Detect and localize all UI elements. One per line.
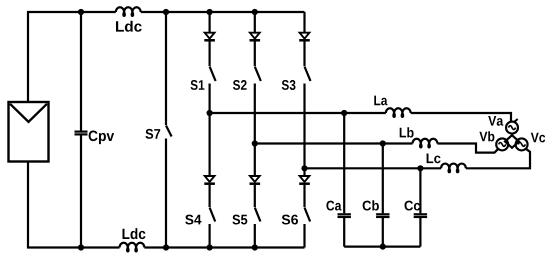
label Ldc (bottom): [123, 228, 146, 239]
switch S2: [255, 67, 261, 82]
wire phase A: [210, 112, 386, 114]
diode D3: [299, 33, 310, 41]
label Lb: [400, 127, 414, 137]
PV module PV1: [9, 102, 49, 162]
label S5: [232, 215, 247, 225]
label Cb: [363, 200, 379, 210]
label Vb: [479, 131, 494, 141]
inductor Ldc (top): [116, 7, 141, 16]
label S4: [185, 215, 201, 225]
node top rail Cpv: [78, 9, 84, 15]
capacitor Cc: [414, 168, 427, 246]
node phase B Cb: [380, 140, 386, 146]
switch S1: [210, 67, 216, 82]
wire: [254, 224, 256, 248]
node top rail S7: [163, 9, 169, 15]
switch S4: [210, 208, 216, 222]
node bottom rail leg1: [207, 244, 213, 250]
wire: [209, 185, 211, 207]
label Va: [488, 116, 503, 126]
diode D1: [204, 33, 215, 41]
diode D2: [250, 33, 261, 41]
label S2: [233, 80, 247, 90]
diode D6: [299, 176, 310, 184]
switch S7: [166, 12, 172, 248]
wire: [303, 41, 305, 66]
wire: [254, 41, 256, 66]
label S7: [146, 129, 161, 139]
source Vc: [516, 138, 528, 150]
wire: [303, 224, 305, 248]
wire star point: [505, 134, 519, 148]
wire: [209, 224, 211, 248]
leg 2 wire top: [254, 12, 256, 33]
node bottom rail Cpv: [78, 244, 84, 250]
label Cpv: [89, 131, 115, 145]
diode D5: [250, 176, 261, 184]
node bottom rail S7: [163, 244, 169, 250]
wire: [209, 41, 211, 66]
wire: [254, 185, 256, 207]
capacitor Ca: [338, 113, 351, 247]
label Ca: [326, 201, 341, 211]
capacitor Cpv: [75, 12, 88, 248]
label Cc: [405, 201, 421, 211]
label S1: [191, 80, 205, 90]
wire bottom rail: [28, 162, 120, 248]
wire phase B: [255, 142, 413, 144]
node phase A leg1: [207, 110, 213, 116]
label S6: [282, 215, 298, 225]
leg 3 wire top: [303, 12, 305, 33]
wire top rail: [28, 12, 116, 102]
node top rail leg2: [252, 9, 258, 15]
node top rail leg1: [207, 9, 213, 15]
wire phase B to Vb: [437, 144, 498, 153]
inductor Ldc (bottom): [120, 243, 145, 252]
node bottom rail leg2: [252, 244, 258, 250]
wire phase C to Vc: [466, 149, 530, 169]
wire: [254, 84, 256, 177]
inductor La: [386, 108, 411, 117]
node phase A Ca: [341, 110, 347, 116]
label Ldc (top): [116, 21, 142, 32]
switch S3: [305, 67, 311, 82]
diode D4: [204, 176, 215, 184]
wire phase A to Va: [411, 113, 511, 123]
leg 1 wire top: [209, 12, 211, 33]
label Vc: [531, 133, 545, 143]
wire: [209, 84, 211, 177]
capacitor Cb: [376, 144, 389, 247]
inductor Lc: [441, 164, 466, 173]
source Va: [506, 119, 518, 134]
node star bar Cb: [380, 244, 386, 250]
label La: [374, 96, 387, 106]
switch S5: [255, 208, 261, 222]
node phase C leg3: [301, 165, 307, 171]
switch S6: [305, 208, 311, 222]
wire: [303, 185, 305, 207]
source Vb: [496, 138, 508, 150]
wire capacitor star bar: [344, 246, 420, 248]
node phase B leg2: [252, 140, 258, 146]
wire: [303, 84, 305, 177]
inductor Lb: [413, 139, 438, 148]
label S3: [282, 80, 296, 90]
label Lc: [427, 154, 441, 164]
wire phase C: [305, 167, 442, 169]
node phase C Cc: [417, 165, 423, 171]
